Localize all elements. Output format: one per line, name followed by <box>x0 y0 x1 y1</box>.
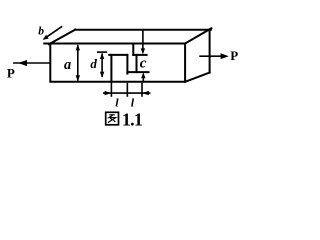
dimension c bottom arrowhead <box>141 72 145 78</box>
dimension b arrow shaft <box>45 26 62 38</box>
bar front face <box>44 44 185 82</box>
dimension d top arrowhead <box>100 53 104 59</box>
dimension c bottom arrow shaft <box>142 77 144 82</box>
joint cut: middle vertical DC <box>126 55 128 74</box>
dimension l extension line middle <box>126 83 128 97</box>
back right vertical edge <box>209 30 211 73</box>
force arrow left head <box>18 60 27 66</box>
dimension l extension line left <box>110 83 112 97</box>
dimension l right arrowhead <box>142 91 149 95</box>
top face left oblique edge <box>49 30 75 45</box>
dimension l left arrowhead <box>105 91 112 95</box>
dimension a arrow shaft <box>77 45 79 81</box>
svg-text:l: l <box>131 96 135 110</box>
joint cut: left piece top vertical GH <box>132 44 134 55</box>
dimension d bottom arrowhead <box>100 72 104 78</box>
dimension l extension line right <box>141 83 143 97</box>
dimension b arrowhead <box>43 35 49 40</box>
joint cut: left vertical BA <box>110 55 112 82</box>
force arrow left shaft <box>13 62 50 64</box>
svg-text:P: P <box>7 65 15 80</box>
dimension a top arrowhead <box>76 44 80 50</box>
bottom right oblique edge <box>185 73 210 82</box>
dimension d arrow shaft <box>101 53 103 77</box>
top face back edge <box>75 29 211 31</box>
joint cut: right piece face vertical EF <box>136 55 138 72</box>
dimension l line <box>103 92 151 94</box>
force arrow right shaft <box>199 55 222 57</box>
svg-text:c: c <box>140 56 147 72</box>
joint cut: horizontal FG with extension <box>133 54 146 56</box>
svg-text:b: b <box>38 25 44 37</box>
svg-text:a: a <box>64 57 71 73</box>
dimension c top arrowhead <box>141 48 145 54</box>
svg-text:P: P <box>230 48 238 63</box>
dimension c top arrow shaft <box>142 30 144 50</box>
dimension a bottom arrowhead <box>76 75 80 81</box>
svg-text:d: d <box>90 56 97 71</box>
dimension d top tick <box>97 51 107 53</box>
joint cut: upper horizontal CB <box>109 54 127 56</box>
joint cut: lower horizontal DE with extension <box>127 71 148 73</box>
svg-text:l: l <box>115 96 119 110</box>
force arrow right head <box>221 53 229 59</box>
top face right oblique edge <box>185 28 211 43</box>
svg-text:1.1: 1.1 <box>122 109 143 129</box>
caption glyph tu (figure) <box>106 112 119 125</box>
